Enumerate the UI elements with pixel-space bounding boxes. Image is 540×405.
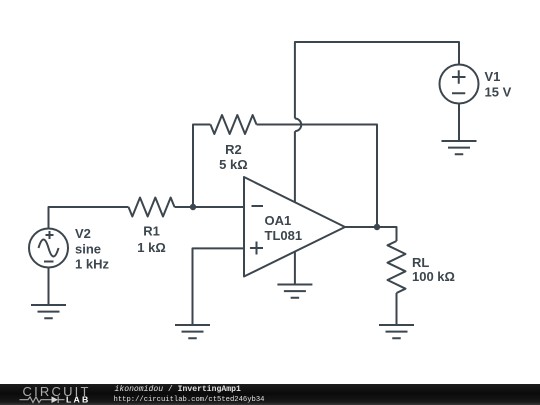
svg-text:1 kHz: 1 kHz [75, 257, 109, 272]
svg-text:sine: sine [75, 242, 101, 257]
svg-text:V2: V2 [75, 226, 91, 241]
svg-text:V1: V1 [485, 69, 501, 84]
svg-text:LAB: LAB [66, 394, 90, 404]
svg-text:15 V: 15 V [485, 85, 512, 100]
svg-text:http://circuitlab.com/ct5ted24: http://circuitlab.com/ct5ted246yb34 [114, 396, 265, 404]
svg-text:TL081: TL081 [265, 228, 303, 243]
svg-text:ikonomidou / InvertingAmp1: ikonomidou / InvertingAmp1 [115, 385, 241, 394]
svg-text:R1: R1 [143, 224, 160, 239]
svg-text:100 kΩ: 100 kΩ [412, 269, 455, 284]
svg-text:1 kΩ: 1 kΩ [137, 240, 166, 255]
svg-text:5 kΩ: 5 kΩ [219, 157, 248, 172]
svg-text:OA1: OA1 [265, 213, 292, 228]
svg-text:R2: R2 [225, 142, 242, 157]
svg-text:RL: RL [412, 255, 429, 270]
